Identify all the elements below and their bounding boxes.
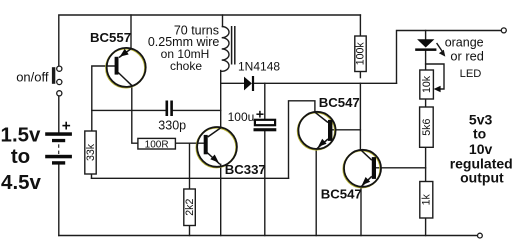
- svg-text:orange: orange: [445, 35, 484, 49]
- wire BC547 Q3 emitter to rail: [315, 149, 317, 235]
- resistor R3 2k2: [184, 189, 196, 226]
- diode D1 1N4148: [244, 76, 254, 91]
- transistor Q2 BC337: [196, 127, 237, 168]
- wire top rail: [59, 15, 361, 66]
- wire BC337 emitter to bottom rail: [220, 164, 222, 235]
- wire 10k to 5k6: [425, 99, 427, 107]
- svg-text:BC337: BC337: [225, 162, 266, 177]
- wire 100k bottom stub: [359, 72, 361, 78]
- battery dashed link: [58, 144, 60, 154]
- wire BC557 collector dropper: [132, 86, 138, 144]
- wire 100R output to BC337 base: [175, 142, 203, 144]
- wire BC547 Q3 collector loop: [289, 101, 315, 179]
- svg-text:1.5v: 1.5v: [1, 124, 41, 147]
- battery B1: [45, 132, 72, 164]
- wire LED anode lead: [425, 31, 427, 40]
- svg-text:output: output: [460, 169, 504, 185]
- svg-text:5k6: 5k6: [421, 119, 433, 136]
- transistor Q1 BC557: [106, 48, 146, 88]
- svg-text:1N4148: 1N4148: [238, 60, 280, 74]
- wire BC557 base to 33k: [92, 66, 115, 131]
- node output+ terminal top right: [501, 28, 506, 33]
- resistor R7 1k: [420, 182, 433, 219]
- svg-text:1k: 1k: [421, 194, 433, 206]
- svg-text:4.5v: 4.5v: [1, 171, 41, 194]
- wire 10k wiper bracket: [426, 64, 444, 89]
- wire 33k bottom to emitter bus: [91, 174, 93, 178]
- svg-text:on/off: on/off: [16, 69, 49, 84]
- wire 5k6 to 1k: [425, 147, 427, 181]
- transistor Q4 BC547: [343, 150, 381, 188]
- wire left rail battery-to-bottom: [58, 165, 60, 236]
- svg-text:BC557: BC557: [90, 30, 131, 45]
- capacitor C2 plus sign: [256, 111, 263, 118]
- wire bottom rail: [59, 235, 478, 237]
- capacitor C2 100u electrolytic: [254, 120, 277, 132]
- wire diode line right: [254, 82, 397, 84]
- wire emitter bus horizontal: [92, 177, 289, 179]
- inductor core bars: [232, 26, 235, 65]
- capacitor C1 330p: [166, 101, 173, 117]
- svg-text:or red: or red: [450, 48, 483, 63]
- svg-text:330p: 330p: [158, 118, 186, 132]
- svg-text:BC547: BC547: [321, 187, 362, 202]
- resistor R2 100R: [138, 138, 176, 150]
- resistor R6 5k6: [420, 107, 434, 147]
- LED emission arrow: [437, 43, 446, 57]
- wire top-right output rail: [397, 31, 502, 84]
- wire BC547 Q3 base dropper: [359, 83, 361, 150]
- wire LED cathode to 10k: [425, 51, 427, 70]
- svg-text:to: to: [473, 126, 486, 142]
- LED D2: [415, 39, 436, 51]
- wire 2k2 top dropper: [189, 143, 191, 189]
- wire BC547 Q4 emitter to rail: [360, 187, 362, 236]
- svg-text:LED: LED: [460, 68, 482, 80]
- resistor R5 10k trimpot: [420, 70, 434, 99]
- trimpot wiper arrow into 10k: [434, 86, 441, 93]
- node output- terminal bottom right: [478, 233, 483, 238]
- wire BC337 collector riser: [220, 71, 222, 129]
- wire 100u bottom lead: [264, 131, 266, 235]
- inductor L1 choke coil: [221, 27, 229, 72]
- battery plus sign: [62, 122, 70, 130]
- wire inductor feed: [222, 15, 224, 27]
- wire left rail switch-to-battery: [58, 96, 60, 132]
- resistor R1 33k: [85, 131, 97, 174]
- wire 330p line left: [92, 109, 166, 111]
- svg-text:choke: choke: [170, 59, 202, 73]
- wire 330p line right: [173, 109, 221, 111]
- wire BC547 Q4 base wire: [376, 167, 426, 169]
- svg-text:BC547: BC547: [319, 95, 360, 110]
- wire 100u top lead: [264, 83, 266, 119]
- svg-text:33k: 33k: [85, 143, 97, 161]
- switch S1 on/off: [52, 66, 62, 96]
- transistor Q3 BC547: [298, 112, 336, 150]
- svg-text:100k: 100k: [355, 42, 367, 66]
- svg-text:100R: 100R: [145, 139, 169, 150]
- svg-text:10k: 10k: [421, 75, 433, 93]
- resistor R4 100k: [355, 36, 367, 72]
- svg-text:100u: 100u: [228, 110, 255, 124]
- svg-text:2k2: 2k2: [184, 199, 196, 216]
- wire 2k2 bottom lead: [189, 226, 191, 236]
- wire BC547 Q3 base wire: [333, 129, 361, 131]
- wire BC557 emitter dropper: [130, 15, 132, 49]
- wire diode line left: [221, 82, 244, 84]
- wire 1k to bottom rail: [425, 218, 427, 236]
- svg-text:to: to: [11, 145, 30, 168]
- wire 100k top lead: [359, 15, 361, 36]
